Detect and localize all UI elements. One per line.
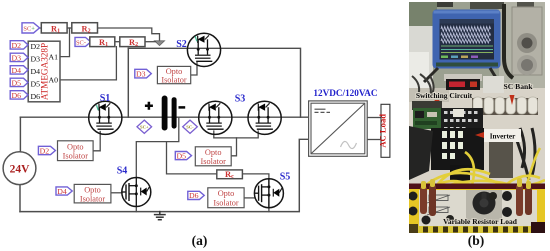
svg-text:S3: S3 xyxy=(235,94,246,105)
pin tag D5 (drive) xyxy=(175,151,191,160)
inverter black box xyxy=(431,128,484,170)
wire: opto5 to S4 gate xyxy=(111,192,122,194)
inverter label xyxy=(484,129,521,142)
svg-text:D2: D2 xyxy=(31,42,41,51)
svg-text:D3: D3 xyxy=(136,70,146,79)
svg-text:Switching Circuit: Switching Circuit xyxy=(416,91,473,100)
pin tag D3 (drive) xyxy=(135,69,152,78)
svg-text:SC-: SC- xyxy=(186,125,194,130)
resistor R1 (top) xyxy=(41,23,67,35)
svg-text:D2: D2 xyxy=(40,146,50,155)
node diamond SC- xyxy=(183,120,198,133)
svg-text:Isolator: Isolator xyxy=(201,157,227,166)
banana posts right xyxy=(502,191,512,201)
pin tag D4 (drive) xyxy=(56,187,72,196)
capacitor C (supercap) plus bar xyxy=(162,96,168,131)
opto isolator U6 (S4 drive) xyxy=(74,184,111,203)
transistor S4 xyxy=(122,178,151,207)
resistor R2 (top) xyxy=(72,23,98,35)
bench backdrop xyxy=(409,88,545,190)
svg-text:Isolator: Isolator xyxy=(161,76,187,85)
svg-text:D4: D4 xyxy=(12,66,22,75)
svg-text:D6: D6 xyxy=(12,91,22,100)
dark wires left area xyxy=(412,74,434,96)
svg-text:S5: S5 xyxy=(280,172,291,183)
svg-text:S4: S4 xyxy=(117,166,128,177)
svg-text:Isolator: Isolator xyxy=(213,199,239,208)
svg-text:Isolator: Isolator xyxy=(63,152,89,161)
wire: S5 vertical through xyxy=(268,179,270,212)
dark device right mid xyxy=(489,141,513,178)
svg-text:S2: S2 xyxy=(176,39,187,50)
opto isolator U4 (S3 drive) xyxy=(195,147,231,166)
transistor S1 xyxy=(89,101,122,134)
black cables right xyxy=(513,128,535,180)
svg-text:Variable Resistor Load: Variable Resistor Load xyxy=(443,217,518,226)
svg-text:SC+: SC+ xyxy=(23,25,35,32)
oscilloscope xyxy=(433,10,501,69)
svg-text:Opto: Opto xyxy=(205,148,222,157)
svg-text:SC-: SC- xyxy=(76,39,86,46)
transistor S3 left xyxy=(199,101,232,134)
opto isolator U2 (S1 drive) xyxy=(58,141,94,161)
svg-text:SC Bank: SC Bank xyxy=(504,82,534,91)
pin tag D5 xyxy=(10,78,28,87)
wire: R2 row2 output xyxy=(145,41,155,43)
svg-text:Opto: Opto xyxy=(67,142,84,151)
svg-text:(a): (a) xyxy=(192,233,208,248)
green PCB xyxy=(412,101,442,110)
knob plate xyxy=(466,190,502,220)
wire: opto1 to S1 gate xyxy=(93,132,100,151)
wire: opto2 to S3 gates xyxy=(231,138,236,156)
net tag SC+ top xyxy=(22,23,40,33)
svg-text:D4: D4 xyxy=(57,187,67,196)
svg-text:24V: 24V xyxy=(10,164,31,176)
plus sign xyxy=(145,102,153,110)
wire: opto4 to S5 gate xyxy=(244,197,254,199)
svg-text:D6: D6 xyxy=(189,191,199,200)
minus sign xyxy=(179,106,186,109)
resistor schematic lines xyxy=(427,195,450,215)
opto isolator U5 (S5 drive) xyxy=(208,188,244,208)
bottom tape strip xyxy=(409,226,545,233)
wire: S3 gate bar xyxy=(214,131,258,138)
wire: SC+ tag to R1 xyxy=(39,27,42,29)
dark clutter along top xyxy=(437,2,453,7)
outlet unit xyxy=(512,7,542,75)
red arrow SC bank xyxy=(510,95,515,105)
wire: top bus y48.3 through S2 xyxy=(128,48,300,117)
wire: R1-R2 second row xyxy=(115,41,120,43)
svg-text:D3: D3 xyxy=(31,54,41,63)
pin tag D6 xyxy=(10,91,28,100)
wire: A0 tap from divider xyxy=(60,47,116,80)
wire: left drop to 24V xyxy=(19,117,21,152)
AC load RL xyxy=(378,104,390,157)
svg-text:D2: D2 xyxy=(12,41,22,50)
svg-text:D5: D5 xyxy=(12,78,22,87)
svg-text:Inverter: Inverter xyxy=(490,133,516,141)
wire: main bus y117.2 xyxy=(20,116,308,118)
banana posts left xyxy=(409,192,418,201)
white papers left xyxy=(409,26,433,88)
white panel xyxy=(419,190,537,226)
node diamond SC+ xyxy=(137,120,152,133)
svg-text:D6: D6 xyxy=(31,92,41,101)
wire: bottom bus xyxy=(20,139,309,211)
svg-text:D3: D3 xyxy=(12,53,22,62)
capacitor C minus bar xyxy=(172,97,177,128)
source V1 24V xyxy=(3,152,36,185)
svg-text:D4: D4 xyxy=(31,67,41,76)
wire: R2 output to arrow xyxy=(98,28,160,41)
wire: 24V to bottom bus xyxy=(19,185,21,212)
transistor S2 xyxy=(187,33,220,66)
svg-text:12VDC/120VAC: 12VDC/120VAC xyxy=(313,88,377,98)
opto isolator U3 (S2 drive) xyxy=(157,66,190,84)
svg-text:A0: A0 xyxy=(48,76,58,85)
left black device xyxy=(409,126,433,180)
power supply display xyxy=(444,74,482,81)
wire: S4/SC- branch xyxy=(136,117,179,177)
svg-text:A1: A1 xyxy=(48,52,58,61)
wire: S4 source to bus xyxy=(135,206,137,211)
pin tag D3 xyxy=(10,53,28,62)
black cable right of scope xyxy=(504,4,513,78)
wire: Rc branch xyxy=(167,142,217,174)
ground symbol bottom xyxy=(155,212,165,220)
svg-text:S1: S1 xyxy=(100,93,111,104)
transistor S3 right xyxy=(248,101,281,134)
white device right xyxy=(483,76,504,93)
wire: Rc to S5 drain xyxy=(242,174,269,179)
svg-text:D5: D5 xyxy=(177,151,187,160)
net tag SC- row2 xyxy=(75,37,91,46)
svg-text:Opto: Opto xyxy=(84,185,101,194)
maroon strip xyxy=(409,184,545,192)
pin tag D2 (drive) xyxy=(38,146,55,155)
transistor S5 xyxy=(254,179,283,208)
svg-text:Isolator: Isolator xyxy=(80,194,106,203)
resistor R2 (row2) xyxy=(120,37,145,48)
svg-text:Opto: Opto xyxy=(218,189,235,198)
svg-text:D5: D5 xyxy=(31,79,41,88)
yellow panel base xyxy=(409,189,545,233)
resistor Rc xyxy=(217,169,243,180)
svg-text:SC+: SC+ xyxy=(140,125,149,130)
svg-text:AC Load: AC Load xyxy=(378,114,388,148)
ground arrow (grey) xyxy=(154,41,164,46)
photo background wall xyxy=(409,2,545,114)
wire: opto3 to S2 gate xyxy=(191,63,197,76)
red arrow switching xyxy=(435,100,440,111)
inverter X1 xyxy=(309,101,368,156)
wire: R1-R2 top row xyxy=(67,27,72,29)
microcontroller U1 ATMEGA328P xyxy=(28,41,60,102)
wire: A1 tap from divider xyxy=(60,28,70,57)
switching circuit black box xyxy=(441,108,483,136)
pin tag D4 xyxy=(10,66,28,75)
supercap bank xyxy=(472,98,538,115)
svg-text:(b): (b) xyxy=(468,233,485,248)
wire: inverter right stubs xyxy=(367,117,381,119)
pin tag D6 (drive) xyxy=(188,191,204,200)
scope cables xyxy=(424,68,438,82)
pin tag D2 xyxy=(10,41,28,50)
resistor R1 (row2) xyxy=(90,37,115,48)
yellow cables xyxy=(420,148,545,196)
wire: drop from top bus to main bus xyxy=(127,48,129,117)
